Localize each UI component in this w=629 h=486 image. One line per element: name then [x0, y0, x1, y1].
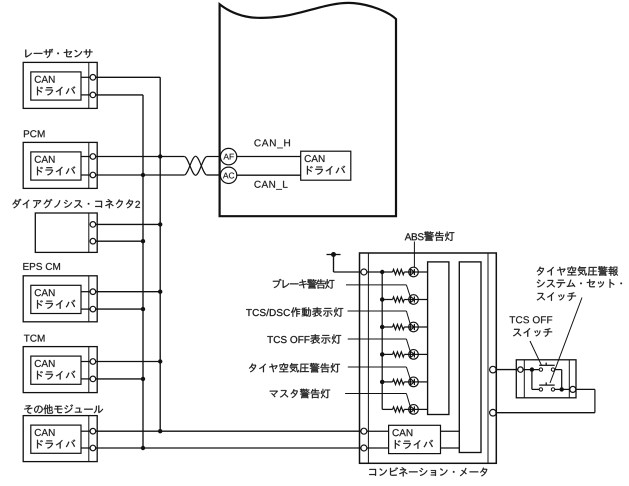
- ECU CAN driver U: [301, 151, 351, 180]
- net label CAN_H: [254, 139, 289, 148]
- leader TCS/DSC indicator lamp: [348, 311, 411, 324]
- lamp row 4: [409, 350, 419, 360]
- wire CAN driver to main block (L): [441, 447, 460, 449]
- wire other-modules pin2 CAN_L to meter: [96, 447, 361, 449]
- wire resistor to lamp row 3: [404, 326, 409, 328]
- label TCS OFF switch: [510, 316, 553, 337]
- junction EPS CAN_H / bus: [158, 290, 162, 294]
- TCM CAN driver U: [31, 356, 81, 384]
- junction diag CAN_L / bus: [141, 239, 145, 243]
- meter main block: [459, 262, 481, 453]
- combination meter box: [360, 253, 497, 463]
- PCM box: [23, 142, 97, 188]
- other modules pin 2 (CAN_L): [90, 445, 96, 451]
- lamp row 1: [409, 267, 419, 277]
- wire EPS pin1 to CAN_H bus: [96, 291, 161, 293]
- label master warning lamp: [270, 389, 330, 399]
- junction rail row 4: [380, 352, 384, 356]
- combination meter label: [369, 467, 487, 476]
- diagnosis connector 2 label: [12, 199, 140, 209]
- CAN_H bus vertical: [159, 77, 161, 431]
- CAN_L bus vertical: [142, 95, 144, 448]
- set switch contact a: [539, 388, 542, 391]
- wire meter to TCS OFF switch: [495, 369, 517, 371]
- wire switch pin to contacts: [523, 369, 539, 371]
- power feed bar: [327, 254, 341, 256]
- leader ABS lamp: [413, 242, 415, 268]
- label TCS/DSC indicator lamp: [246, 307, 343, 317]
- lamp row 3: [409, 322, 419, 332]
- wire meter pin to CAN driver (H): [367, 430, 389, 432]
- resistor lamp row 1: [393, 269, 405, 274]
- junction other CAN_H / bus: [158, 429, 162, 433]
- connector pin AF: [220, 148, 236, 164]
- wire diag pin1 to CAN_H bus: [96, 223, 161, 225]
- TCS OFF switch contact a: [539, 368, 542, 371]
- wire rail to resistor row 5: [382, 381, 392, 383]
- TCM pin 2 (CAN_L): [90, 376, 96, 382]
- net label CAN_L: [254, 181, 287, 190]
- lamp supply rail vertical: [381, 272, 383, 409]
- EPS CM pin 1 (CAN_H): [90, 289, 96, 295]
- lamp row 6: [409, 405, 419, 415]
- junction EPS CAN_L / bus: [141, 307, 145, 311]
- resistor lamp row 4: [393, 352, 405, 357]
- connector pin AC: [220, 167, 236, 183]
- junction rail row 4 dot: [380, 352, 384, 356]
- leader tire pressure warning lamp: [348, 367, 410, 379]
- meter lamp driver block: [428, 262, 449, 415]
- TCS OFF switch contact b: [551, 368, 554, 371]
- other modules label: [24, 404, 103, 414]
- wire rail to resistor row 4: [382, 353, 392, 355]
- laser sensor pin 1 (CAN_H): [90, 75, 96, 81]
- other modules pin 1 (CAN_H): [90, 428, 96, 434]
- EPS CM box: [23, 276, 97, 322]
- wire diag pin2 to CAN_L bus: [96, 240, 143, 242]
- junction rail row 3 dot: [380, 325, 384, 329]
- junction rail row 5 dot: [380, 380, 384, 384]
- wire TCM pin1 to CAN_H bus: [96, 361, 161, 363]
- label tire pressure warning lamp: [249, 363, 340, 373]
- laser sensor label: [25, 49, 92, 58]
- laser sensor box: [23, 62, 97, 108]
- junction PCM CAN_L / bus: [141, 173, 145, 177]
- junction rail row 1 dot: [380, 270, 384, 274]
- leader TCS OFF indicator lamp: [348, 339, 410, 351]
- junction rail row 2: [380, 297, 384, 301]
- leader TCS OFF switch: [530, 341, 542, 365]
- wire rail to resistor row 6: [382, 408, 392, 410]
- meter pin CAN_L: [361, 445, 367, 451]
- laser sensor pin 2 (CAN_L): [90, 92, 96, 98]
- wire rail to resistor row 2: [382, 299, 392, 301]
- wire power feed to meter: [334, 271, 361, 273]
- PCM pin 2 (CAN_L): [90, 172, 96, 178]
- wire TCS OFF contact b to tie line: [555, 370, 562, 390]
- EPS CM CAN driver pin wires: [81, 292, 93, 309]
- switch box: [516, 360, 576, 398]
- wire set contact b to switch pin right: [555, 388, 570, 390]
- wire switch feed down to set switch: [532, 370, 539, 390]
- other modules box: [23, 416, 97, 462]
- wire EPS pin2 to CAN_L bus: [96, 308, 143, 310]
- TCS OFF switch blade: [539, 363, 555, 366]
- wire resistor to lamp row 6: [404, 408, 409, 410]
- junction rail row 2 dot: [380, 297, 384, 301]
- switch box pin left: [518, 367, 523, 372]
- set switch blade: [539, 382, 555, 385]
- wire AF to ECU CAN driver: [236, 156, 300, 158]
- wire AC to ECU CAN driver: [236, 174, 300, 176]
- meter pin CAN_H: [361, 428, 367, 434]
- leader master warning lamp: [345, 394, 410, 407]
- laser sensor CAN driver pin wires: [81, 77, 93, 95]
- junction power feed: [331, 252, 336, 257]
- wire power feed down: [333, 255, 335, 273]
- resistor lamp row 2: [393, 297, 405, 302]
- wire lamp to driver block row 2: [418, 299, 427, 301]
- PCM label: [24, 130, 45, 137]
- other modules CAN driver U: [31, 425, 81, 453]
- other modules CAN driver pin wires: [81, 431, 93, 448]
- wire CAN driver to main block (H): [441, 430, 460, 432]
- wire lamp to driver block row 4: [418, 353, 427, 355]
- meter CAN driver U: [389, 425, 441, 453]
- PCM CAN driver pin wires: [81, 157, 93, 176]
- wire lamp to driver block row 5: [418, 381, 427, 383]
- junction PCM CAN_H / bus: [158, 154, 162, 158]
- wire other-modules pin1 CAN_H to meter: [96, 430, 361, 432]
- wire supply to lamp rail: [367, 271, 393, 273]
- switch box pin right: [570, 386, 576, 392]
- label tire pressure warning system set switch: [537, 266, 622, 301]
- junction other CAN_L / bus: [141, 446, 145, 450]
- meter pin lamp supply: [361, 269, 367, 275]
- resistor lamp row 3: [393, 324, 405, 329]
- junction rail row 5: [380, 380, 384, 384]
- junction switch feed: [530, 367, 534, 371]
- EPS CM pin 2 (CAN_L): [90, 306, 96, 312]
- TCM box: [23, 347, 97, 393]
- meter pin to TCS OFF switch: [490, 366, 497, 373]
- leader tire pressure set switch: [550, 298, 582, 384]
- lamp row 5: [409, 377, 419, 387]
- wire PCM pin1 CAN_H to twist: [96, 156, 185, 158]
- wire resistor to lamp row 2: [404, 299, 409, 301]
- resistor lamp row 6: [393, 407, 405, 412]
- wire resistor to lamp row 1: [404, 271, 409, 273]
- junction TCM CAN_H / bus: [158, 359, 162, 363]
- EPS CM CAN driver U: [31, 285, 81, 313]
- wire laser pin2 to CAN_L bus: [96, 94, 143, 96]
- wire TCM pin2 to CAN_L bus: [96, 378, 143, 380]
- leader brake warning lamp: [346, 285, 410, 296]
- wire resistor to lamp row 4: [404, 353, 409, 355]
- label ABS warning lamp: [405, 231, 455, 241]
- wire resistor to lamp row 5: [404, 381, 409, 383]
- junction tie line / set switch output: [560, 387, 564, 391]
- label brake warning lamp: [273, 279, 335, 289]
- ECU box (continued, torn edge): [220, 3, 396, 216]
- TCM label: [24, 335, 45, 342]
- twisted pair CAN_H/CAN_L: [184, 156, 221, 175]
- wire lamp to driver block row 3: [418, 326, 427, 328]
- wire meter pin to CAN driver (L): [367, 447, 389, 449]
- set switch contact b: [551, 388, 554, 391]
- wire rail to resistor row 3: [382, 326, 392, 328]
- junction rail row 3: [380, 325, 384, 329]
- wire switch return to meter: [495, 389, 595, 412]
- EPS CM label: [23, 263, 60, 270]
- laser sensor CAN driver U: [31, 72, 81, 100]
- PCM CAN driver U: [31, 152, 81, 180]
- diagnosis connector 2 box: [35, 213, 97, 252]
- wire laser pin1 to CAN_H bus: [96, 76, 161, 78]
- wire lamp to driver block row 1: [418, 271, 427, 273]
- meter pin switch return: [490, 409, 497, 416]
- wire lamp to driver block row 6: [418, 408, 427, 410]
- diagnosis connector 2 pin 2 (CAN_L): [90, 238, 96, 244]
- diagnosis connector 2 pin 1 (CAN_H): [90, 222, 96, 228]
- junction TCM CAN_L / bus: [141, 377, 145, 381]
- junction diag CAN_H / bus: [158, 222, 162, 226]
- label TCS OFF indicator lamp: [267, 334, 341, 344]
- lamp row 2: [409, 295, 419, 305]
- TCM pin 1 (CAN_H): [90, 359, 96, 365]
- resistor lamp row 5: [393, 379, 405, 384]
- PCM pin 1 (CAN_H): [90, 154, 96, 160]
- wire PCM pin2 CAN_L to twist: [96, 174, 185, 176]
- TCM CAN driver pin wires: [81, 362, 93, 379]
